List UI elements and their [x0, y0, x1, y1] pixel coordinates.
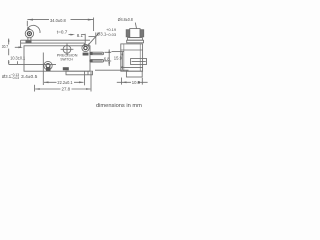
end view body inner line: [121, 49, 143, 51]
dim 27.8 ext left: [34, 85, 36, 92]
left vertical dimension line 30.7: [8, 39, 10, 65]
svg-text:15.9: 15.9: [114, 55, 123, 60]
end view terminal slot: [131, 59, 147, 65]
svg-text:10.3: 10.3: [132, 80, 141, 85]
middle circle horizontal centerline: [61, 48, 74, 50]
end view roller hub: [130, 29, 140, 38]
dark mark bottom center of body: [63, 67, 69, 70]
bottom-left hole inner ring: [46, 64, 50, 68]
svg-text:Ø4.8±0.8: Ø4.8±0.8: [118, 17, 133, 22]
bottom-left hole horizontal centerline: [9, 63, 56, 65]
roller inner circle: [27, 32, 31, 36]
svg-text:10.3±0.1: 10.3±0.1: [10, 55, 26, 60]
svg-text:6.8: 6.8: [104, 57, 110, 62]
dim 22.2 line and arrows: [44, 81, 84, 83]
dim 15.9 tick: [112, 51, 125, 53]
end view body lower inner line: [121, 67, 143, 69]
svg-text:30.7: 30.7: [2, 44, 9, 49]
dim 6.8 arrows: [108, 49, 110, 53]
end view fork plate upper: [128, 38, 143, 41]
svg-text:3.4±0.5: 3.4±0.5: [21, 74, 38, 79]
top-right hole outer: [82, 44, 89, 51]
dim 27.8 right ext: [90, 72, 92, 92]
bottom-left hole vertical tangent line: [42, 53, 44, 86]
svg-text:27.8: 27.8: [62, 86, 71, 91]
dim 34.0 right arrow: [88, 19, 94, 21]
svg-text:22.2±0.1: 22.2±0.1: [57, 80, 73, 85]
roller center dot: [29, 33, 31, 35]
bottom boss of body: [66, 71, 93, 75]
dim 8.1 right vertical ext: [95, 33, 97, 45]
lever bar top line: [21, 39, 90, 41]
dim 34.0 left ext line: [26, 21, 28, 26]
leader from hole dia note to top hole: [88, 33, 99, 45]
terminal tab 1: [90, 52, 104, 55]
lever rotation arc arrow: [28, 25, 40, 33]
svg-text:−0.03: −0.03: [11, 76, 20, 80]
roller neck: [28, 37, 31, 40]
dim 10.3 ext lines: [122, 78, 143, 85]
end view roller left flange: [126, 30, 130, 37]
bottom-left hole outer: [44, 61, 52, 69]
svg-text:t=0.7: t=0.7: [57, 29, 68, 34]
dim 34.0 right ext line: [93, 18, 95, 32]
lever left tip: [20, 40, 22, 43]
dim 22.2 right ext line: [84, 72, 86, 86]
lever bar bottom line: [21, 42, 85, 44]
svg-text:8.1: 8.1: [77, 33, 84, 38]
dim lever tip arrow (3.2): [15, 46, 21, 48]
terminal tab 2: [90, 60, 104, 63]
svg-text:34.0±0.8: 34.0±0.8: [50, 18, 66, 23]
end view body: [121, 44, 143, 71]
dark mark under top-right hole: [83, 53, 89, 56]
svg-text:SWITCH: SWITCH: [60, 58, 73, 62]
top-right hole inner ring: [84, 46, 87, 49]
dim 15.9 vertical line: [121, 52, 123, 70]
body bottom ext to right: [95, 69, 129, 71]
leader for dia 4.8: [135, 23, 136, 29]
dark mark near bottom-left hole: [46, 67, 51, 71]
dim 8.1 right segment: [89, 36, 96, 38]
lever tip extension line: [20, 43, 22, 48]
lever hinge verticals: [85, 43, 90, 46]
dim 27.8 line: [35, 88, 90, 90]
svg-text:dimensions in mm: dimensions in mm: [96, 103, 142, 109]
end view inner wall lines: [124, 44, 141, 71]
roller (simulated roller curl) outer circle: [25, 29, 33, 37]
top hole vertical centerline: [84, 34, 86, 45]
svg-text:−0.03: −0.03: [106, 32, 117, 37]
middle circle vertical centerline: [66, 44, 68, 56]
end view bottom boss: [126, 71, 142, 77]
end view fork plate lower: [127, 40, 144, 43]
switch body outline: [24, 46, 90, 71]
dim 34.0 left arrow: [27, 19, 33, 21]
dim 10.3 line with outside tails: [117, 81, 148, 83]
dim 8.1 line with arrow: [69, 34, 74, 36]
middle plunger circle: [63, 45, 71, 53]
dim 34.0 line left: [27, 19, 49, 21]
end view roller right flange: [140, 30, 144, 37]
dim 6.8 vertical line: [108, 49, 110, 66]
dim 34.0 line right: [71, 19, 94, 21]
dim 6.8 ext ticks: [105, 52, 112, 61]
dark junction under roller: [26, 41, 32, 44]
